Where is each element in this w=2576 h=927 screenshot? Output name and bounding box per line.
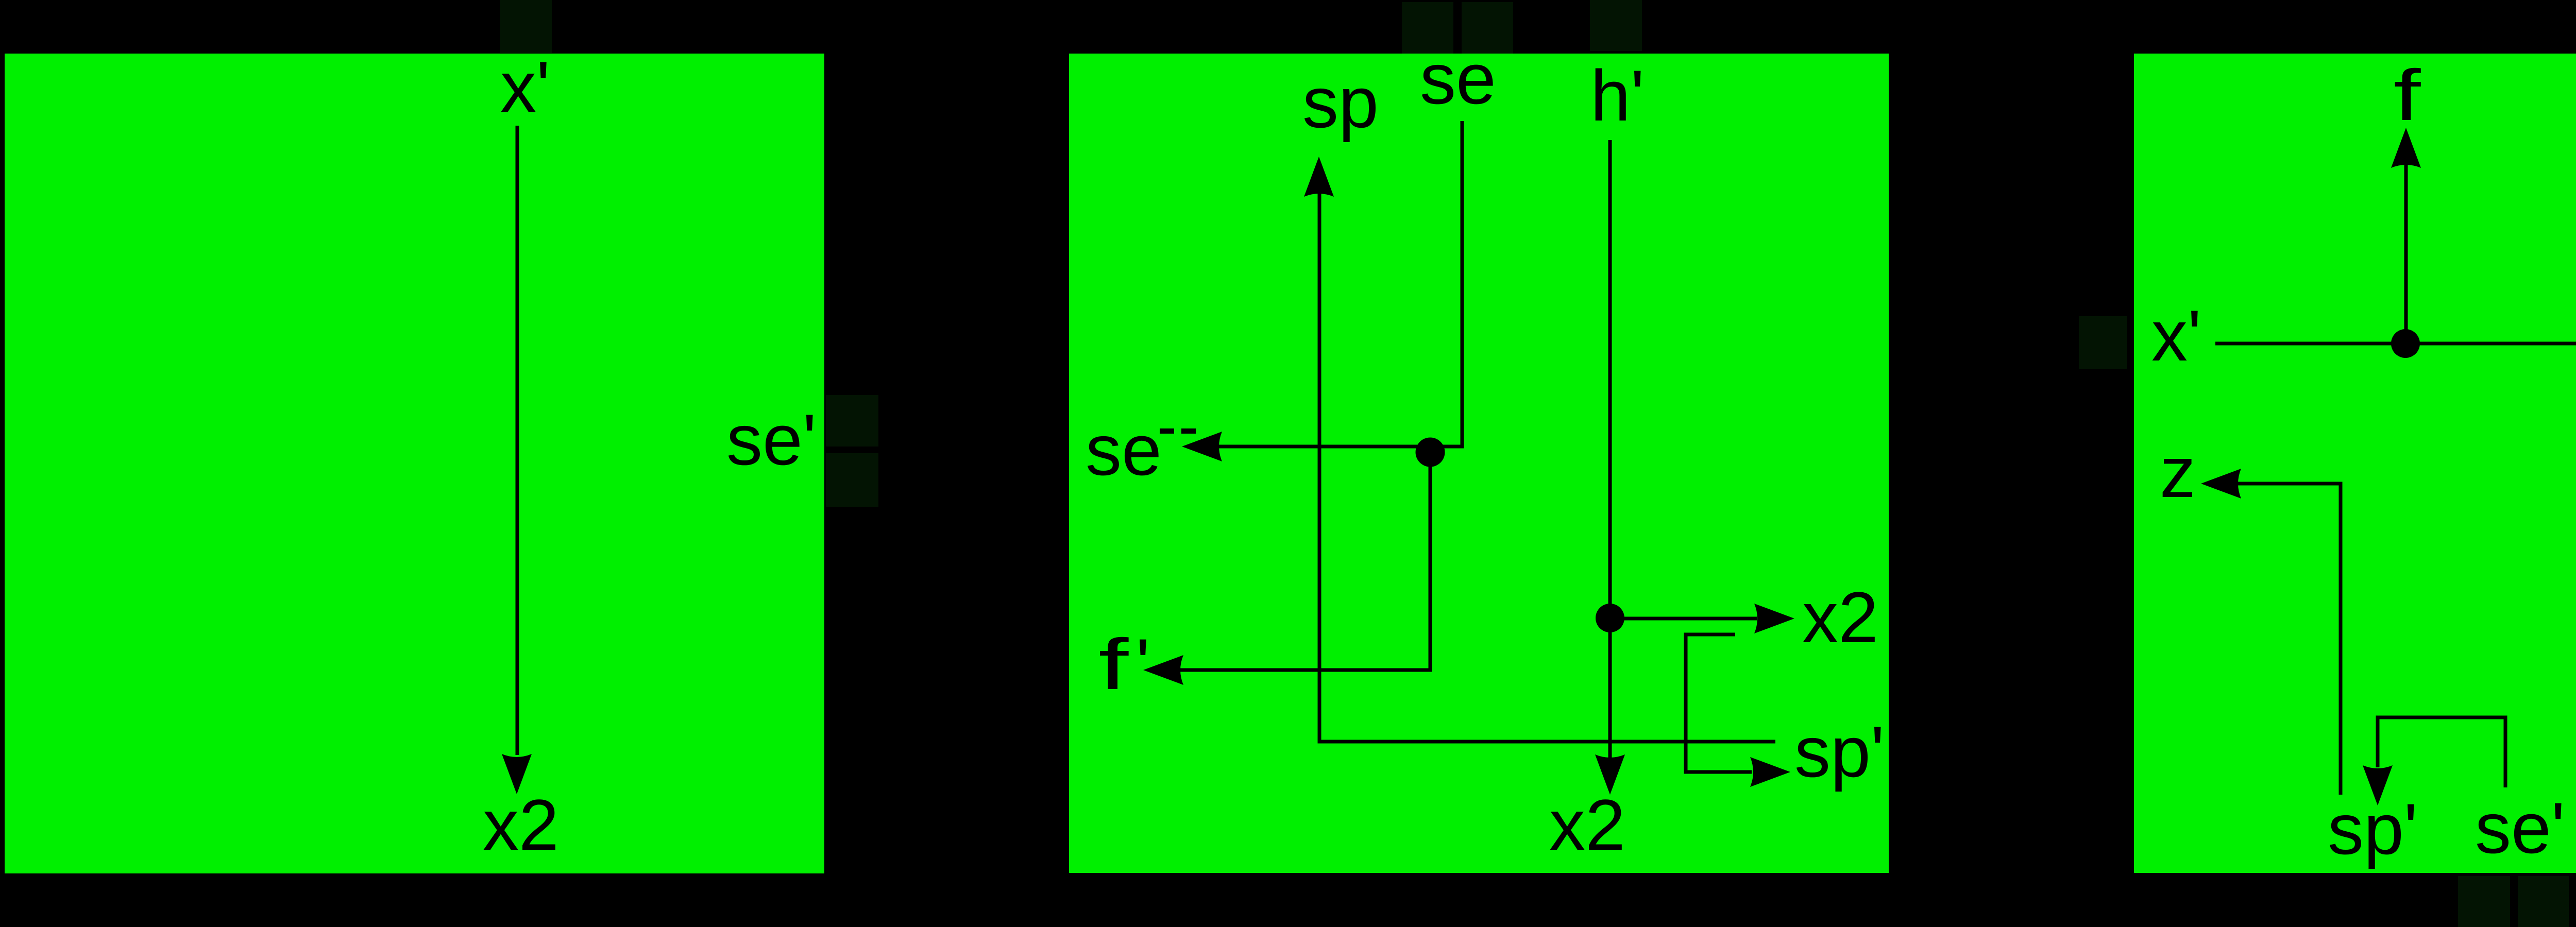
- arrowhead left at se--: [1182, 432, 1222, 461]
- svg-text:f: f: [2394, 55, 2421, 136]
- node junction dot on se wire: [1416, 438, 1445, 467]
- arrowhead up at f: [2391, 128, 2421, 168]
- wire junction down and left to f': [1180, 452, 1430, 670]
- arrowhead down at sp': [2363, 765, 2393, 805]
- hidden label box above middle panel 1: [1402, 2, 1453, 54]
- svg-text:f: f: [1098, 624, 1129, 705]
- svg-text:se': se': [2475, 787, 2565, 868]
- wire h' down to x2 bottom: [1608, 140, 1612, 760]
- node junction dot on h' wire: [1596, 604, 1624, 632]
- hidden label box below right panel 1: [2458, 876, 2510, 927]
- arrowhead right at x2 mid: [1754, 604, 1794, 633]
- arrowhead down at x2 bottom: [1595, 754, 1625, 795]
- svg-text:h': h': [1590, 55, 1645, 136]
- wire x' to x2: [516, 126, 519, 755]
- superscript dash 1 of se--: [1160, 428, 1174, 434]
- hidden label box below right panel 2: [2518, 876, 2569, 927]
- arrowhead right at sp': [1750, 757, 1790, 787]
- svg-text:x2: x2: [483, 784, 559, 865]
- panel 3 background: [2134, 54, 2576, 873]
- svg-text:x2: x2: [1802, 577, 1878, 658]
- wire se down and left to se--: [1216, 121, 1462, 447]
- svg-text:x': x': [2151, 295, 2201, 376]
- hidden label box right of left panel (upper): [826, 395, 878, 447]
- wire up to f: [2404, 165, 2408, 344]
- hidden label box above middle panel 3: [1590, 0, 1642, 51]
- hidden label box above middle panel 2: [1462, 2, 1513, 54]
- hidden label box left of right panel: [2079, 316, 2127, 369]
- arrowhead left at f': [1143, 655, 1183, 685]
- svg-text:z: z: [2160, 432, 2196, 512]
- superscript dash 2 of se--: [1181, 428, 1196, 434]
- svg-text:': ': [1136, 624, 1150, 705]
- svg-text:se: se: [1086, 409, 1162, 490]
- svg-text:sp': sp': [2328, 788, 2418, 869]
- wire sp' up and left to z: [2238, 484, 2341, 795]
- hidden label box above left panel: [500, 0, 552, 53]
- svg-text:x': x': [500, 46, 550, 127]
- arrowhead up at sp: [1304, 157, 1334, 197]
- hidden label box right of left panel (lower): [826, 453, 878, 507]
- svg-text:x2: x2: [1549, 784, 1625, 865]
- arrowhead left at z: [2201, 469, 2241, 499]
- svg-text:sp': sp': [1794, 711, 1885, 792]
- svg-text:se: se: [1420, 38, 1496, 119]
- panel 1 background: [5, 54, 824, 873]
- wire x2 hook to sp': [1686, 634, 1752, 772]
- arrowhead down at x2: [502, 754, 532, 794]
- wire se' to sp' staple: [2378, 717, 2505, 787]
- wire x' to x2 horizontal: [2215, 342, 2576, 346]
- svg-text:se': se': [726, 399, 817, 480]
- svg-text:sp: sp: [1302, 62, 1379, 143]
- node junction dot 1 on x' wire: [2391, 329, 2420, 358]
- wire junction right to x2 mid: [1610, 617, 1757, 621]
- panel 2 background: [1069, 54, 1889, 873]
- wire sp' to sp: [1319, 191, 1775, 742]
